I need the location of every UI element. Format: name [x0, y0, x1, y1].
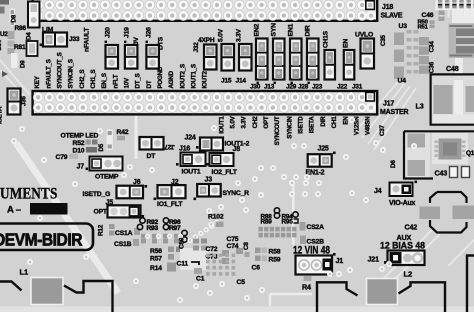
- svg-text:nFAULT_S: nFAULT_S: [45, 59, 52, 88]
- white pad block under C11: [180, 248, 208, 270]
- svg-text:CH1S: CH1S: [323, 30, 330, 48]
- svg-text:J17: J17: [383, 101, 394, 108]
- wire bottom edge light strip: [0, 307, 474, 312]
- resistor R102 body: [216, 222, 224, 228]
- svg-text:IOUT2_S: IOUT2_S: [179, 64, 186, 88]
- via grid: [206, 254, 210, 258]
- jumper J20: [106, 45, 119, 69]
- pin 1 square pad of header J18: [366, 1, 375, 10]
- jumper J6: [117, 186, 144, 199]
- jumper J25: [308, 154, 332, 167]
- part top-right pad rows: [436, 0, 474, 10]
- wire white diagonal trace left: [16, 143, 118, 293]
- svg-text:EN: EN: [342, 116, 349, 125]
- part right gray block: [434, 85, 453, 114]
- jumper J1: [296, 256, 333, 275]
- svg-text:DIR: DIR: [320, 116, 327, 127]
- svg-text:D10: D10: [73, 148, 85, 155]
- svg-text:OPT: OPT: [263, 116, 270, 129]
- svg-text:CS2A: CS2A: [307, 224, 325, 231]
- svg-text:J7: J7: [77, 164, 85, 171]
- wire bottom horizontal trace: [270, 294, 312, 312]
- svg-text:R81: R81: [14, 44, 26, 51]
- part QFN backing: [405, 131, 431, 178]
- jumper J33: [43, 33, 67, 47]
- jumper J24: [200, 138, 223, 151]
- svg-text:IOUT1: IOUT1: [182, 169, 201, 176]
- svg-text:VIO-Aux: VIO-Aux: [389, 200, 416, 207]
- svg-text:IO1_FLT: IO1_FLT: [157, 201, 183, 208]
- svg-text:C35: C35: [380, 34, 387, 46]
- svg-text:AGND: AGND: [168, 70, 175, 88]
- jumper J26: [146, 45, 159, 69]
- wire diagonal traces bottom right: [380, 230, 474, 282]
- svg-text:DT: DT: [146, 80, 153, 88]
- svg-text:4XPH: 4XPH: [198, 37, 215, 44]
- pad of C42 left: [420, 207, 441, 220]
- svg-text:Q1: Q1: [466, 150, 474, 157]
- svg-text:J15: J15: [221, 78, 232, 85]
- svg-text:C11: C11: [177, 261, 189, 268]
- svg-text:R102: R102: [208, 214, 224, 221]
- wire L1 loop right: [64, 281, 113, 312]
- svg-text:J31: J31: [352, 84, 363, 91]
- svg-text:C46: C46: [422, 12, 434, 19]
- svg-text:CH1: CH1: [331, 116, 338, 129]
- svg-text:C43: C43: [435, 169, 448, 178]
- svg-text:MASTER: MASTER: [380, 109, 409, 116]
- svg-text:OPT: OPT: [94, 209, 108, 216]
- jumper IO2: [210, 153, 234, 166]
- svg-text:SYN: SYN: [271, 23, 278, 37]
- svg-text:D5: D5: [98, 143, 105, 151]
- svg-text:ISETD: ISETD: [298, 116, 305, 134]
- jumper (vertical) near D8: [28, 2, 40, 28]
- svg-text:D9: D9: [20, 60, 27, 68]
- IC Q1 QFN: [435, 139, 466, 160]
- svg-text:C74: C74: [227, 243, 239, 250]
- svg-text:J25: J25: [318, 146, 329, 153]
- svg-text:C72: C72: [206, 246, 218, 253]
- svg-text:UMENTS: UMENTS: [0, 185, 58, 202]
- svg-text:C34: C34: [429, 41, 436, 53]
- jumper J36: [8, 89, 21, 115]
- svg-text:J19: J19: [124, 27, 131, 38]
- via pads scattered: [19, 126, 25, 132]
- svg-text:10V: 10V: [124, 77, 131, 88]
- svg-text:IOUT1_S: IOUT1_S: [191, 64, 198, 88]
- svg-text:J14: J14: [236, 78, 247, 85]
- svg-text:U3: U3: [399, 23, 408, 30]
- svg-text:KEY: KEY: [34, 75, 41, 88]
- svg-text:SLAVE: SLAVE: [381, 13, 403, 20]
- svg-text:3.3V: 3.3V: [241, 115, 248, 128]
- jumper EN: [344, 50, 355, 80]
- svg-text:CH2: CH2: [252, 116, 259, 129]
- capacitor column C34/C36: [419, 37, 429, 45]
- wire mid diagonal traces near J17: [355, 82, 416, 150]
- svg-text:J18: J18: [382, 4, 393, 11]
- jumper UVLO: [361, 39, 375, 69]
- pin 1 square pad of long header: [366, 92, 375, 101]
- diode D8: [10, 9, 16, 26]
- svg-text:C79: C79: [56, 154, 68, 161]
- jumper J15: [222, 44, 235, 71]
- svg-text:ISETD_G: ISETD_G: [83, 191, 111, 198]
- svg-text:3.3V: 3.3V: [236, 28, 243, 42]
- svg-text:C80: C80: [179, 237, 186, 249]
- svg-text:L2: L2: [404, 270, 412, 279]
- svg-text:12 BIAS 48: 12 BIAS 48: [380, 241, 425, 251]
- svg-text:ISETA: ISETA: [0, 106, 4, 124]
- svg-text:R4: R4: [302, 283, 311, 292]
- svg-text:IOUT1: IOUT1: [218, 116, 225, 134]
- svg-text:C42: C42: [405, 223, 418, 232]
- jumper J16: [181, 153, 206, 167]
- svg-text:OTEMP: OTEMP: [95, 174, 119, 181]
- jumper J7: [90, 157, 123, 171]
- jumper CH1S: [325, 50, 336, 80]
- diode D9: [11, 53, 18, 68]
- svg-text:R86: R86: [15, 25, 27, 32]
- svg-text:C5: C5: [237, 279, 246, 286]
- svg-text:SYNCOUT_S: SYNCOUT_S: [57, 52, 64, 88]
- svg-text:DT: DT: [147, 153, 157, 160]
- wire white stub above C48 box: [455, 58, 463, 75]
- svg-text:A –: A –: [7, 205, 21, 216]
- svg-text:C8: C8: [243, 242, 250, 250]
- svg-text:J4: J4: [374, 188, 382, 195]
- svg-text:D6: D6: [390, 160, 397, 168]
- svg-text:R51: R51: [418, 24, 429, 30]
- part top-left corner pads: [0, 0, 9, 5]
- svg-text:R14: R14: [150, 265, 162, 272]
- svg-text:SYNC_R: SYNC_R: [223, 190, 250, 197]
- svg-text:J20: J20: [105, 27, 112, 38]
- small pads between U3 and U4: [407, 30, 412, 33]
- svg-text:J21: J21: [368, 255, 380, 264]
- jumper DIR: [307, 39, 319, 80]
- pin1 dots below tall jumpers: [257, 82, 259, 84]
- svg-text:J27: J27: [164, 143, 175, 150]
- wire vertical trace x136: [135, 113, 138, 159]
- jumper J21: [388, 251, 425, 266]
- svg-text:C1: C1: [196, 276, 205, 283]
- svg-text:R42: R42: [117, 129, 129, 136]
- jumper EN1: [290, 39, 302, 80]
- arrow for C11: [191, 262, 199, 265]
- svg-text:CS1A: CS1A: [115, 230, 133, 237]
- svg-text:C48: C48: [446, 64, 459, 73]
- svg-text:nFAULT: nFAULT: [84, 27, 91, 52]
- wire vertical trace x293: [292, 183, 295, 245]
- svg-text:EN1: EN1: [288, 23, 295, 36]
- svg-text:IOUT2: IOUT2: [202, 71, 209, 89]
- svg-text:DIR: DIR: [305, 25, 312, 36]
- black bar: [30, 203, 68, 215]
- svg-text:U2: U2: [0, 31, 8, 38]
- jumper J32: [204, 45, 217, 70]
- svg-text:R89: R89: [261, 218, 273, 225]
- resistor ring pair: [182, 230, 187, 235]
- svg-text:J22: J22: [337, 84, 348, 91]
- svg-text:J24: J24: [185, 135, 196, 142]
- svg-text:L1: L1: [20, 268, 29, 277]
- svg-text:OTEMP LED: OTEMP LED: [61, 133, 99, 140]
- svg-text:5.0V: 5.0V: [218, 28, 225, 42]
- svg-text:J3: J3: [205, 177, 213, 184]
- jumper J4: [390, 183, 413, 197]
- svg-text:C36: C36: [429, 61, 436, 73]
- svg-text:R95: R95: [282, 218, 294, 225]
- svg-text:U4: U4: [398, 78, 407, 85]
- small marker left edge: [2, 71, 8, 77]
- svg-text:J13: J13: [264, 84, 275, 91]
- pin1 dot J33: [40, 44, 43, 47]
- svg-text:nFLT: nFLT: [112, 74, 119, 88]
- part in D6 box: [408, 134, 426, 148]
- svg-text:C75: C75: [227, 236, 239, 243]
- capacitor C42 outline: [430, 192, 467, 233]
- wire L2 loop right: [399, 282, 446, 312]
- via chain diagonal: [187, 238, 192, 243]
- svg-text:R12: R12: [98, 224, 105, 236]
- svg-text:R93: R93: [147, 225, 159, 232]
- jumper J14: [239, 44, 252, 71]
- jumper J3: [197, 184, 221, 197]
- inductor L1 body: [31, 278, 63, 305]
- svg-text:R52: R52: [73, 140, 85, 147]
- wire L1 loop left: [0, 282, 22, 291]
- wire L2 loop left: [317, 282, 358, 312]
- wire traces under top-right pads: [440, 9, 442, 18]
- svg-text:EN2: EN2: [254, 23, 261, 36]
- svg-text:J32: J32: [193, 42, 200, 53]
- capacitor C48 body box: [431, 74, 474, 124]
- svg-text:J23: J23: [312, 84, 323, 91]
- svg-text:R58: R58: [269, 249, 281, 256]
- svg-text:C37: C37: [379, 124, 386, 136]
- header long signal header row 2: [33, 91, 378, 114]
- header J18 top pin header: [33, 0, 378, 21]
- component outline bottom-right corner: [467, 256, 474, 312]
- svg-text:CS1B: CS1B: [114, 241, 132, 248]
- jumper SYN: [273, 39, 285, 80]
- component outline box D6: [404, 131, 433, 178]
- svg-text:SYNCIN_S: SYNCIN_S: [68, 59, 75, 88]
- svg-text:R57: R57: [150, 256, 162, 263]
- svg-text:CH1_S: CH1_S: [90, 69, 97, 88]
- svg-text:5.0V: 5.0V: [230, 115, 237, 128]
- component outline line below C48 box: [404, 130, 474, 132]
- svg-text:EN_S: EN_S: [101, 73, 108, 88]
- jumper J2: [158, 185, 186, 198]
- wire top-left diagonal traces: [0, 60, 30, 98]
- svg-text:C6: C6: [252, 265, 261, 272]
- svg-text:J1: J1: [336, 256, 344, 265]
- svg-text:J26: J26: [146, 27, 153, 38]
- inductor L2 body: [367, 279, 398, 305]
- svg-text:R56: R56: [150, 248, 162, 255]
- transformer T1 body: [449, 24, 474, 59]
- svg-text:J29: J29: [286, 84, 297, 91]
- pad of C42 right: [453, 206, 474, 220]
- svg-text:CH2_S: CH2_S: [79, 69, 86, 88]
- jumper J5: [108, 205, 141, 217]
- svg-text:DT_S: DT_S: [135, 73, 142, 88]
- svg-text:ISETA: ISETA: [309, 116, 316, 133]
- svg-text:J30: J30: [250, 84, 261, 91]
- svg-text:SYNCIN: SYNCIN: [286, 116, 293, 139]
- svg-text:J8: J8: [233, 146, 241, 153]
- jumper J27: [140, 137, 164, 150]
- svg-text:IO2_FLT: IO2_FLT: [212, 169, 238, 176]
- jumper EN2: [256, 39, 268, 80]
- svg-text:C84: C84: [0, 39, 3, 51]
- small parts cluster near C80: [193, 239, 199, 244]
- svg-text:R97: R97: [169, 225, 181, 232]
- svg-text:J28: J28: [298, 84, 309, 91]
- svg-text:J16: J16: [179, 146, 190, 153]
- svg-text:R59: R59: [269, 257, 281, 264]
- svg-text:D4: D4: [26, 32, 33, 40]
- board name box DEVM-BIDIR: [0, 224, 93, 251]
- part right edge block: [466, 86, 474, 112]
- svg-text:EN: EN: [343, 39, 350, 48]
- svg-text:D8: D8: [11, 14, 18, 22]
- svg-text:V48SN: V48SN: [365, 116, 372, 135]
- svg-text:SYNCOUT: SYNCOUT: [274, 116, 281, 145]
- svg-text:DEVM-BIDIR: DEVM-BIDIR: [0, 230, 83, 250]
- svg-text:J36: J36: [21, 96, 28, 106]
- svg-text:J33: J33: [69, 36, 80, 43]
- jumper J19: [125, 45, 137, 69]
- part in D6 box 2: [408, 160, 426, 176]
- svg-text:L3: L3: [416, 102, 424, 111]
